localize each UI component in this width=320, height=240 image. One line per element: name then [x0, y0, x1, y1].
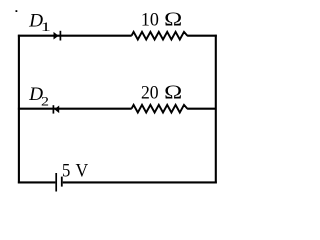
resistor R1 zigzag (10 ohm) — [132, 32, 188, 40]
svg-text:V: V — [76, 161, 89, 182]
wire: top side, left segment — [18, 35, 132, 37]
svg-text:1: 1 — [41, 19, 51, 34]
resistor R2 zigzag (20 ohm) — [132, 105, 188, 113]
value label 10 ohm — [141, 9, 182, 31]
svg-text:Ω: Ω — [164, 9, 182, 31]
wire: middle branch, left segment — [18, 108, 132, 110]
battery B1 (5 V): short plate — [61, 177, 63, 187]
wire: top side, right segment — [187, 35, 217, 37]
svg-text:2: 2 — [41, 94, 49, 109]
value label 5 V — [62, 161, 88, 182]
battery B1 (5 V): long plate — [55, 173, 57, 192]
wire: bottom side, left segment — [18, 181, 56, 183]
diode D2 (cathode bar left, anode right; points left) — [53, 105, 59, 113]
diode D1 (anode left, cathode bar right) — [54, 31, 61, 41]
wire: middle branch, right segment — [187, 108, 216, 110]
wire: left side vertical — [18, 35, 20, 184]
value label 20 ohm — [141, 82, 182, 104]
svg-text:Ω: Ω — [164, 82, 182, 104]
svg-text:20: 20 — [141, 83, 159, 104]
wire: right side vertical — [215, 35, 217, 184]
stray ink dot top-left — [16, 10, 18, 12]
label D1 — [28, 10, 51, 34]
svg-text:10: 10 — [141, 9, 159, 30]
wire: bottom side, right segment — [63, 181, 217, 183]
label D2 — [28, 84, 49, 109]
svg-text:5: 5 — [62, 161, 70, 182]
